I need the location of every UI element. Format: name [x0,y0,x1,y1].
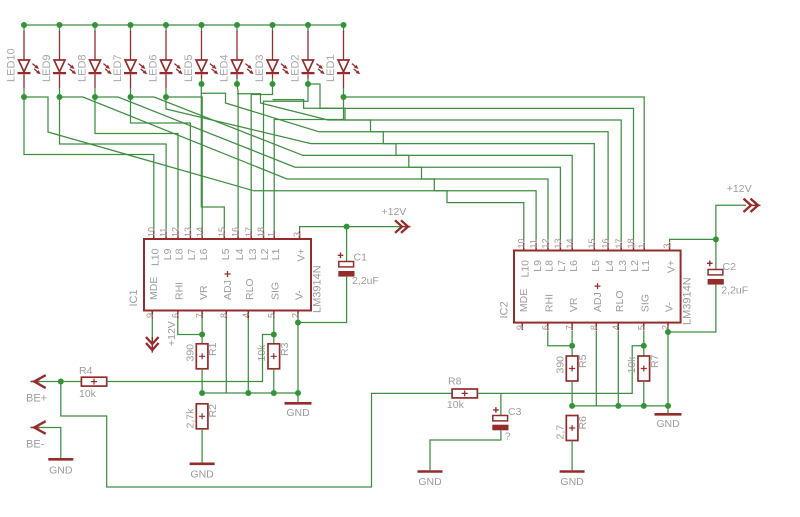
svg-text:R1: R1 [207,342,219,356]
svg-text:LED7: LED7 [112,54,124,82]
svg-text:BE-: BE- [26,439,45,451]
junction C1 top [344,224,350,230]
svg-text:R6: R6 [577,416,589,430]
junction rail node LED1 [341,22,347,28]
resistor R8 [452,389,477,398]
LED LED5 [183,25,218,84]
resistor R4 [81,377,106,386]
svg-text:RLO: RLO [244,278,256,300]
wire IC1 RHI pin6 to VR junction [178,318,202,335]
junction LED10 cathode node [21,94,27,100]
wire IC1 SIG pin5 to R3 [273,318,275,344]
svg-text:V-: V- [664,302,676,312]
svg-text:4: 4 [611,325,621,330]
junction LED1 cathode node [341,94,347,100]
svg-text:VR: VR [568,297,580,312]
supply +12V arrow (IC1 MODE, pointing down) [146,337,159,353]
junction rail node LED6 [163,22,169,28]
svg-text:MDE: MDE [148,277,160,300]
svg-text:LED6: LED6 [147,54,159,82]
svg-text:GND: GND [656,418,680,430]
svg-text:7: 7 [195,313,205,318]
wire IC1 V+ pin3 to +12V rail [300,227,400,232]
wire IC1 RLO pin4 down [247,318,249,393]
svg-text:11: 11 [529,239,539,248]
svg-text:LED8: LED8 [76,54,88,82]
svg-text:ADJ: ADJ [592,292,604,312]
svg-text:16: 16 [601,238,611,248]
LED LED7 [112,25,147,97]
wire IC2 divider row [572,405,668,407]
ground R6 GND [560,472,585,489]
wire R6 to GND [571,441,573,471]
junction R5/R6 node [569,403,575,409]
LED LED9 [41,25,76,97]
svg-text:R7: R7 [649,354,661,368]
supply +12V arrow (right) [744,199,761,212]
wire LED10 to IC1 L10 [24,97,154,232]
wire LED3 to IC1 L3 [251,84,272,232]
junction LED4 cathode node [234,81,240,87]
wire BE+ to R4 [38,381,81,383]
svg-text:L10: L10 [150,248,162,266]
ground IC2 V- GND [655,414,682,430]
svg-text:10: 10 [516,238,526,248]
junction R3 bottom [271,390,277,396]
svg-text:2: 2 [291,313,301,318]
wire R1 to R2 [201,369,203,393]
svg-text:C2: C2 [723,261,737,273]
svg-text:12: 12 [171,227,181,237]
junction LED5 cathode node [199,81,205,87]
svg-text:L3: L3 [247,248,259,260]
wire C3 tap [500,393,502,415]
capacitor C3 [492,407,508,430]
svg-text:BE+: BE+ [26,393,47,405]
LED LED8 [76,25,111,97]
wire IC2 V- pin2 down [667,331,669,413]
svg-text:L5: L5 [220,248,232,260]
wire LED7 to IC2 L7 [131,97,561,243]
svg-text:L8: L8 [174,248,186,260]
svg-text:+12V: +12V [382,206,407,218]
svg-text:LED3: LED3 [254,54,266,82]
wire R5 to R6 [571,381,573,406]
svg-text:+12V: +12V [166,321,178,346]
junction LED7 cathode node [128,94,134,100]
svg-text:390: 390 [555,356,567,374]
resistor R6 [566,416,578,441]
svg-text:3: 3 [662,243,672,248]
svg-text:C1: C1 [354,252,368,264]
capacitor C2 [707,261,724,285]
LED LED10 [5,25,40,97]
wire R2 to GND [201,429,203,463]
svg-text:2,7: 2,7 [555,425,567,440]
svg-text:2,2uF: 2,2uF [352,275,379,287]
svg-text:L9: L9 [532,260,544,272]
wire IC2 SIG pin5 to R7 [643,331,645,356]
wire LED1 to IC2 L1 [344,97,645,243]
svg-text:13: 13 [553,238,563,248]
svg-text:R5: R5 [577,354,589,368]
ground IC1 V- GND [285,403,312,419]
svg-text:L4: L4 [234,248,246,260]
svg-text:18: 18 [626,238,636,248]
svg-text:L7: L7 [186,248,198,260]
svg-text:14: 14 [565,238,575,248]
svg-text:11: 11 [159,228,169,237]
svg-text:V-: V- [294,290,306,300]
svg-text:GND: GND [560,476,584,488]
svg-text:5: 5 [266,313,276,318]
junction rail node LED9 [57,22,63,28]
svg-text:L1: L1 [270,248,282,260]
svg-text:17: 17 [614,238,624,248]
junction IC1 V- row [295,390,301,396]
pin numbers IC2 [515,238,672,330]
svg-text:GND: GND [190,469,214,481]
resistor R3 [268,344,280,369]
junction R1/R2 node [199,390,205,396]
svg-text:L4: L4 [604,260,616,272]
wire IC2 RHI pin6 to VR junction [548,331,572,346]
svg-text:+12V: +12V [727,183,752,195]
wire LED4 to IC1 L4 [237,84,238,232]
svg-text:6: 6 [540,325,550,330]
svg-text:15: 15 [587,238,597,248]
svg-text:L8: L8 [544,260,556,272]
svg-text:SIG: SIG [270,282,282,300]
wire R8 to IC2 SIG [477,346,643,394]
LED LED6 [147,25,182,97]
svg-text:R4: R4 [79,365,93,377]
svg-text:LM3914N: LM3914N [311,265,323,313]
svg-text:L1: L1 [640,260,652,272]
resistor R7 [638,356,650,381]
svg-text:IC2: IC2 [498,301,510,318]
wire LED8 to IC1 L8 [95,97,178,232]
wire LED10 to IC2 L10 [24,97,524,243]
svg-text:GND: GND [418,476,442,488]
svg-text:ADJ: ADJ [222,280,234,300]
junction rail node LED3 [270,22,276,28]
svg-text:L9: L9 [162,248,174,260]
junction IC1 V- / C1 [295,320,301,326]
wire IC1 V- pin2 down [297,318,299,402]
wire LED1 to IC1 L1 [274,97,343,232]
svg-text:16: 16 [231,227,241,237]
svg-text:GND: GND [49,465,73,477]
junction IC1 SIG/R3 top [271,332,277,338]
svg-text:6: 6 [170,313,180,318]
svg-text:2,7k: 2,7k [185,408,197,429]
svg-text:8: 8 [589,325,599,330]
svg-text:4: 4 [241,313,251,318]
wire BE+ trunk to R8 [61,382,452,488]
wire LED5 to IC1 L5 [201,84,224,232]
pin labels IC2 [518,260,677,312]
wire BE- to GND [38,428,61,459]
svg-text:MDE: MDE [518,289,530,312]
op-amp-IC IC1 LM3914N body [144,232,311,319]
junction LED3 cathode node [270,81,276,87]
junction C2 top [713,236,719,242]
svg-text:LED2: LED2 [289,54,301,82]
svg-text:10k: 10k [447,399,465,411]
junction rail node LED4 [234,22,240,28]
svg-text:IC1: IC1 [128,289,140,306]
wire LED6 to IC1 L6 [166,97,202,232]
wire LED anode rail +12V [24,24,344,26]
svg-text:18: 18 [256,227,266,237]
svg-text:1: 1 [267,232,277,237]
svg-text:VR: VR [198,285,210,300]
wire C1 vertical [346,227,348,262]
svg-text:L7: L7 [556,260,568,272]
svg-text:14: 14 [195,227,205,237]
svg-text:17: 17 [244,227,254,237]
svg-text:SIG: SIG [640,294,652,312]
svg-text:1: 1 [637,243,647,248]
junction LED8 cathode node [92,94,98,100]
svg-text:15: 15 [217,227,227,237]
junction LED6 cathode node [163,94,169,100]
LED LED1 [325,25,360,97]
svg-text:LED4: LED4 [218,54,230,82]
svg-text:V+: V+ [295,249,307,262]
wire IC2 ADJ pin8 down [595,331,597,406]
svg-text:LED9: LED9 [41,54,53,82]
svg-text:12: 12 [541,238,551,248]
ground C3 GND [418,472,443,489]
wire R7 bottom to row [643,381,645,406]
wire LED9 to IC1 L9 [60,97,167,232]
svg-text:LED1: LED1 [325,54,337,82]
junction IC2 VR/R5 top [569,343,575,349]
wire IC1 divider row ADJ/RLO [202,392,298,394]
svg-text:9: 9 [145,313,155,318]
svg-text:R8: R8 [448,376,462,388]
junction IC2 RLO node [615,403,621,409]
svg-text:7: 7 [565,325,575,330]
junction LED9 cathode node [57,94,63,100]
wire LED4 to IC2 L4 [237,94,608,243]
svg-text:9: 9 [515,325,525,330]
junction R7 bottom [641,403,647,409]
svg-text:L3: L3 [617,260,629,272]
wire C2 vertical [715,239,717,269]
connector BE- arrow [31,421,46,434]
wire LED6 to IC2 L6 [166,97,572,243]
wire LED9 to IC2 L9 [60,97,537,243]
svg-text:RHI: RHI [174,282,186,300]
svg-text:5: 5 [636,325,646,330]
pin numbers IC1 [145,227,302,318]
svg-text:GND: GND [286,407,310,419]
wire IC1 ADJ pin8 down [225,318,227,393]
wire IC2 VR pin7 to R5 [571,331,573,356]
wire LED8 to IC2 L8 [95,97,548,243]
svg-text:L5: L5 [590,260,602,272]
svg-text:10k: 10k [626,356,638,374]
wire LED7 to IC1 L7 [131,97,191,232]
junction IC2 V- C2 node [665,329,671,335]
junction IC1 VR/R1 top [199,332,205,338]
LED LED4 [218,25,253,84]
LED LED2 [289,25,324,84]
svg-text:V+: V+ [665,260,677,273]
junction LED2 cathode node [305,81,311,87]
wire IC1 VR pin7 to R1 [201,318,203,344]
junction IC2 SIG/R7 top [641,343,647,349]
ground BE- GND [48,459,73,476]
svg-text:L6: L6 [198,248,210,260]
resistor R5 [566,356,578,381]
wire C3 to GND [430,430,501,470]
wire IC2 V+ pin3 to +12V [670,205,746,242]
svg-text:L10: L10 [520,260,532,278]
capacitor C1 [338,253,355,277]
svg-text:8: 8 [219,313,229,318]
junction BE+ node [58,379,64,385]
wire LED5 to IC2 L5 [201,93,594,242]
svg-text:LED10: LED10 [5,48,17,82]
svg-text:LM3914N: LM3914N [681,277,693,325]
svg-text:10k: 10k [79,388,97,400]
wire IC2 RLO pin4 down [617,331,619,406]
svg-text:?: ? [505,431,511,443]
junction RLO node [245,390,251,396]
supply +12V arrow (middle) [395,220,411,233]
svg-text:L6: L6 [568,260,580,272]
ground R2 GND [190,464,215,481]
svg-text:RHI: RHI [544,294,556,312]
wire R4 to IC1 SIG [107,335,274,382]
svg-text:13: 13 [183,227,193,237]
connector BE+ arrow [31,375,46,388]
LED LED3 [254,25,289,84]
resistor R2 [196,404,208,429]
junction rail node LED5 [199,22,205,28]
wire LED2 to IC1 L2 [264,84,309,232]
pin labels IC1 [148,248,307,300]
junction rail node LED10 [21,22,27,28]
wire R3 bottom to row [273,369,275,393]
junction IC2 V- row [665,403,671,409]
resistor R1 [196,344,208,369]
svg-text:390: 390 [185,344,197,362]
wire IC1 MDE pin9 stub to +12V [151,318,153,337]
wire LED3 to IC2 L3 [273,100,622,243]
junction rail node LED8 [92,22,98,28]
svg-text:10: 10 [146,227,156,237]
svg-text:C3: C3 [508,406,522,418]
wire C1 bottom to IC1 V- [298,277,347,323]
junction rail node LED7 [128,22,134,28]
svg-text:2,2uF: 2,2uF [721,285,748,297]
wire C2 bottom to IC2 V- [668,285,716,332]
svg-text:3: 3 [292,232,302,237]
svg-text:R3: R3 [279,342,291,356]
svg-text:R2: R2 [207,404,219,418]
svg-text:RLO: RLO [614,291,626,313]
svg-text:LED5: LED5 [183,54,195,82]
op-amp-IC IC2 LM3914N body [514,243,681,330]
wire LED2 to IC2 L2 [308,84,634,243]
junction rail node LED2 [305,22,311,28]
